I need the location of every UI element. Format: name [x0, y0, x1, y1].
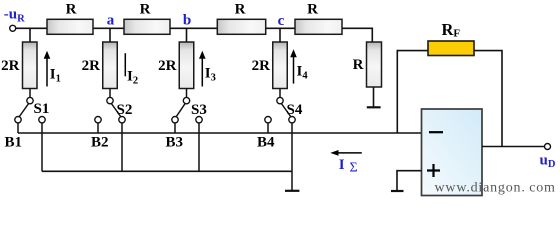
terminating resistor R: [367, 42, 382, 87]
switch S1 lever: [19, 103, 29, 117]
resistor R1: [47, 19, 93, 34]
wire top rail: [16, 28, 373, 42]
ground bus2: [285, 190, 299, 192]
wire summing bus to op-amp: [18, 132, 422, 134]
switch S3 pole: [183, 97, 189, 103]
switch S2 right contact: [119, 117, 125, 123]
svg-text:S1: S1: [34, 101, 50, 117]
switch S4 right contact: [289, 117, 295, 123]
node stub column1: [29, 28, 31, 42]
switch S3 lever: [176, 103, 186, 117]
resistor 2R column1: [23, 42, 38, 89]
svg-text:www.diangon. com: www.diangon. com: [435, 181, 556, 196]
wire terminating resistor to ground: [373, 87, 375, 107]
wire feedback right vertical: [474, 51, 502, 147]
svg-text:R: R: [66, 2, 77, 18]
ground terminating: [367, 106, 381, 108]
wire 2R col3 to switch S3 pole: [186, 89, 188, 98]
svg-text:a: a: [107, 13, 115, 29]
wire 2R col2 to switch S2 pole: [109, 89, 111, 98]
wire S2 left contact to summing bus: [97, 123, 99, 133]
wire S4 left contact to summing bus: [267, 123, 269, 133]
svg-text:2R: 2R: [82, 58, 101, 74]
svg-text:S3: S3: [191, 102, 207, 118]
resistor R4: [295, 19, 342, 34]
terminal -uR input: [10, 25, 16, 31]
current arrow I4: [290, 49, 297, 83]
wire S3 left contact to summing bus: [174, 123, 176, 133]
svg-text:B3: B3: [166, 135, 184, 151]
op-amp plus sign: [427, 164, 440, 177]
svg-text:B4: B4: [257, 135, 275, 151]
switch S4 pole: [277, 97, 283, 103]
wire S1 left contact to summing bus: [17, 123, 19, 133]
switch S4 left contact: [265, 117, 271, 123]
switch S3 right contact: [196, 117, 202, 123]
svg-text:R: R: [353, 57, 364, 73]
svg-text:R: R: [307, 2, 318, 18]
wire S4 right contact to ground: [291, 123, 293, 191]
svg-text:S4: S4: [287, 102, 303, 118]
wire noninverting input to ground: [397, 171, 422, 191]
wire S2 right contact to ground bus: [121, 123, 123, 171]
resistor 2R column2: [103, 42, 118, 89]
switch S3 left contact: [172, 117, 178, 123]
resistor R2: [124, 19, 170, 34]
svg-text:I: I: [339, 157, 345, 173]
resistor R3: [217, 19, 265, 34]
op-amp minus sign: [429, 131, 443, 133]
node c stub: [279, 28, 281, 42]
current arrow I1: [44, 51, 51, 87]
switch S2 left contact: [95, 117, 101, 123]
wire 2R col1 to switch S1 pole: [29, 89, 31, 98]
wire S3 right contact to ground bus: [198, 123, 200, 171]
svg-text:2R: 2R: [158, 58, 177, 74]
resistor 2R column4: [273, 42, 288, 89]
svg-text:b: b: [183, 13, 191, 29]
svg-text:Σ: Σ: [350, 160, 358, 175]
wire ground bus: [42, 170, 292, 172]
switch S4 lever: [281, 103, 291, 117]
resistor 2R column3: [179, 42, 194, 89]
svg-text:B1: B1: [5, 135, 23, 151]
node b stub: [186, 28, 188, 42]
wire output: [482, 146, 545, 148]
svg-text:R: R: [235, 2, 246, 18]
switch S1 left contact: [15, 117, 21, 123]
resistor RF: [428, 41, 474, 56]
current arrow I3: [199, 51, 206, 87]
current line I2: [124, 53, 126, 76]
node a stub: [109, 28, 111, 42]
svg-text:2R: 2R: [1, 58, 20, 74]
wire 2R col4 to switch S4 pole: [279, 89, 281, 98]
switch S1 right contact: [39, 117, 45, 123]
switch S1 pole: [27, 97, 33, 103]
svg-text:c: c: [278, 13, 285, 29]
switch S2 pole: [107, 97, 113, 103]
wire S1 right contact to ground bus: [41, 123, 43, 171]
svg-text:S2: S2: [117, 102, 133, 118]
svg-text:R: R: [140, 2, 151, 18]
op-amp U1: [422, 109, 483, 196]
ground op-amp: [391, 190, 404, 192]
terminal uD output: [545, 144, 551, 150]
switch S2 lever: [111, 103, 121, 117]
svg-text:2R: 2R: [252, 58, 271, 74]
wire feedback left vertical: [397, 51, 428, 133]
svg-text:B2: B2: [91, 135, 109, 151]
current arrow I sigma: [330, 150, 362, 156]
